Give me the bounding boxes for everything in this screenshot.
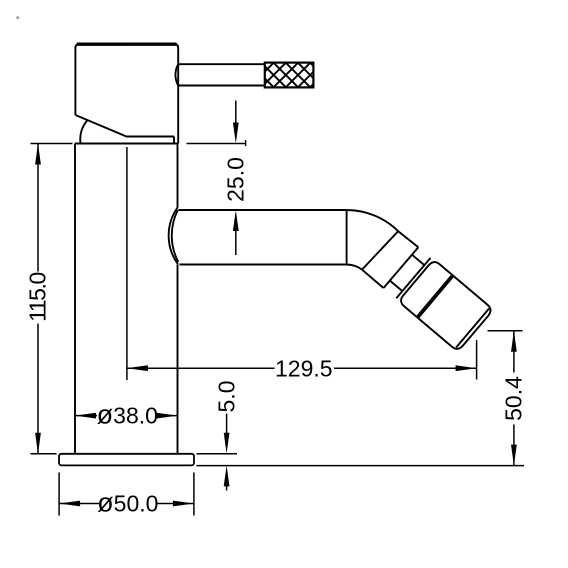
lever bar xyxy=(178,64,265,85)
svg-text:50.4: 50.4 xyxy=(501,376,527,421)
dim 50.0 arrow right xyxy=(173,501,194,507)
dim 50.4 extension line top xyxy=(488,330,523,332)
mounting plane line xyxy=(197,465,525,467)
base plate xyxy=(59,454,194,466)
coupling segment side lines xyxy=(362,231,418,288)
dim 50.0 extension line right xyxy=(193,473,195,516)
lever ball-end arc xyxy=(175,64,178,85)
dim 50.0 extension line left xyxy=(58,473,60,516)
dim 5.0 arrow down xyxy=(224,433,230,454)
spout top line xyxy=(179,209,347,211)
lever knurled grip xyxy=(235,61,361,90)
dim 50.4 line upper xyxy=(513,331,515,373)
elbow end joint J1 xyxy=(362,231,398,269)
dim 115.0 arrow down xyxy=(35,433,41,454)
dim 129.5 line left xyxy=(127,367,275,369)
dim 50.0 line left xyxy=(59,503,99,505)
dim 25.0 extension line xyxy=(187,143,246,145)
dim 5.0 lower leader xyxy=(226,486,228,491)
dim 50.4 line lower xyxy=(513,425,515,466)
dim 38.0 line right xyxy=(158,415,178,417)
svg-text:ø50.0: ø50.0 xyxy=(97,488,158,518)
dim 115.0 extension line top xyxy=(31,143,73,145)
stray dot xyxy=(17,17,19,19)
svg-text:ø38.0: ø38.0 xyxy=(97,400,158,430)
dim 38.0 arrow left xyxy=(75,413,96,419)
dim 38.0 arrow right xyxy=(157,413,178,419)
spray head dark band xyxy=(418,276,453,317)
dim 115.0 line upper xyxy=(37,144,39,272)
handle body (mixer cartridge cover) xyxy=(75,44,178,144)
dim 115.0 arrow up xyxy=(35,144,41,165)
svg-text:115.0: 115.0 xyxy=(25,272,51,321)
spray head face inner line xyxy=(456,309,489,348)
elbow inner arc xyxy=(347,265,362,270)
coupling joint J2 xyxy=(384,247,419,288)
dim 5.0 upper leader xyxy=(226,414,228,435)
handle top thick edge xyxy=(77,43,177,46)
dim 25.0 arrow up xyxy=(233,210,239,231)
dim 25.0 lower leader xyxy=(235,229,237,255)
faucet body left edge xyxy=(74,144,76,454)
dim 129.5 extension line left (body centerline) xyxy=(126,147,128,380)
faucet body right edge lower xyxy=(177,265,179,454)
spout root fillet arc inner xyxy=(172,210,179,262)
dim 38.0 line left xyxy=(75,415,97,417)
svg-text:129.5: 129.5 xyxy=(275,355,333,381)
dim 5.0 arrow up xyxy=(224,465,230,486)
dim 25.0 extension tick xyxy=(245,140,247,146)
spout bottom line xyxy=(180,264,347,266)
dim 129.5 extension line right xyxy=(476,340,478,380)
spout end joint xyxy=(346,210,348,265)
dim 50.0 arrow left xyxy=(59,501,80,507)
dim 50.0 line right xyxy=(156,503,194,505)
elbow outer arc xyxy=(347,210,399,231)
svg-text:5.0: 5.0 xyxy=(214,381,240,413)
head flange line xyxy=(396,258,430,298)
handle underside arc xyxy=(80,121,87,144)
faucet body top edge xyxy=(75,143,178,145)
dim 50.4 arrow down xyxy=(511,445,517,466)
dim 50.4 arrow up xyxy=(511,331,517,352)
spout root fillet arc outer xyxy=(169,208,178,265)
dim 129.5 arrow left xyxy=(127,365,148,371)
dim 129.5 line right xyxy=(334,367,477,369)
dim 25.0 upper leader xyxy=(235,101,237,125)
dim 25.0 arrow down xyxy=(233,123,239,144)
faucet body right edge upper xyxy=(177,144,179,208)
dim 115.0 extension line bottom xyxy=(31,453,57,455)
handle neck step line xyxy=(173,137,175,144)
dim 129.5 arrow right xyxy=(456,365,477,371)
dim 5.0 extension line xyxy=(197,453,238,455)
svg-text:25.0: 25.0 xyxy=(223,157,249,202)
neck side lines xyxy=(390,255,425,291)
dim 115.0 line lower xyxy=(37,324,39,454)
spray head outline xyxy=(401,262,490,349)
